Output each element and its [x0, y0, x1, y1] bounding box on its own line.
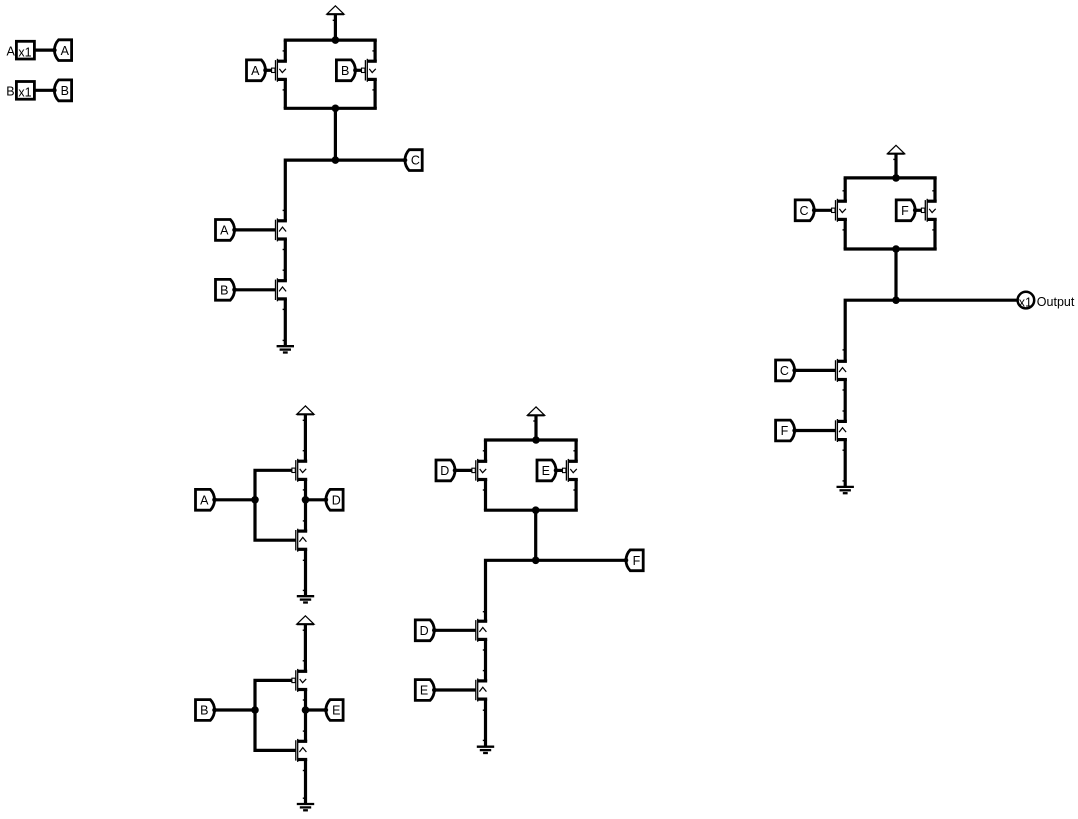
svg-text:A: A [251, 64, 260, 78]
arc end tick [932, 229, 935, 231]
wire output column (inverter 2) [304, 690, 307, 742]
input label B (N2 gate) [216, 279, 237, 300]
input label A (N1 gate) [216, 220, 237, 241]
export pin C [403, 150, 423, 171]
arc end tick [303, 770, 306, 772]
wire rail to P4 source [933, 178, 936, 201]
wire rail to P5 source [484, 440, 487, 461]
wire input B (inverter 2) [215, 708, 256, 711]
junction drain rail (NAND2) [532, 506, 540, 514]
wire VDD to pmos (inverter 1) [304, 414, 307, 461]
power VDD symbol (NAND3) [887, 145, 904, 153]
input label C (P3 gate) [795, 200, 816, 221]
nmos pull-down (inverter 1) [296, 529, 307, 552]
svg-text:E: E [332, 704, 340, 718]
wire rail to P6 source [574, 440, 577, 461]
pmos P6 (gate E) [563, 459, 578, 482]
input label A (inverter 1) [196, 489, 217, 510]
wire A to N1 gate [235, 228, 276, 231]
arc end tick [843, 480, 846, 482]
nmos pull-down (inverter 2) [296, 739, 307, 762]
wire VDD to pmos (inverter 2) [304, 624, 307, 671]
svg-text:B: B [341, 64, 349, 78]
arc end tick [932, 190, 935, 192]
arc end tick [573, 489, 576, 491]
svg-text:A: A [7, 45, 16, 59]
wire D to P5 gate [455, 469, 472, 472]
svg-text:D: D [420, 624, 429, 638]
arc end tick [283, 89, 286, 91]
wire drain rail to output node [894, 249, 897, 300]
export pin D [324, 489, 344, 510]
arc end tick [303, 730, 306, 732]
input label B (P2 gate) [336, 60, 357, 81]
export pin F [624, 550, 644, 571]
arc end tick [483, 489, 486, 491]
arc end tick [893, 158, 896, 160]
wire VDD rail (NAND2) [484, 438, 578, 441]
wire nmos to ground (inverter 2) [304, 760, 307, 804]
wire N3 to N4 [844, 380, 847, 422]
nmos N1 (gate A) [276, 218, 287, 241]
junction output node (inverter 1) [302, 496, 310, 504]
svg-text:x1: x1 [1019, 296, 1032, 310]
wire VDD to rail (NAND1) [334, 14, 337, 40]
wire C to P3 gate [814, 209, 831, 212]
svg-text:E: E [542, 464, 550, 478]
input label E (N6 gate) [415, 680, 436, 701]
ground symbol (NAND3) [837, 487, 854, 493]
junction drain rail (NAND1) [332, 105, 340, 113]
junction VDD rail (NAND2) [532, 436, 540, 444]
input label E (P6 gate) [537, 460, 558, 481]
power VDD symbol (inverter 1) [297, 406, 314, 414]
wire drain rail (NAND3) [844, 247, 937, 250]
nmos N5 (gate D) [476, 619, 487, 642]
ground symbol (NAND2) [477, 747, 494, 753]
wire P4 drain to rail2 [933, 219, 936, 249]
wire gate column (inverter 2) [255, 680, 296, 750]
wire rail to P1 source [284, 40, 287, 61]
wire gate column (inverter 1) [255, 470, 296, 540]
power VDD symbol (NAND2) [527, 407, 544, 415]
arc end tick [303, 797, 306, 799]
buffer instance x1 (input A) [16, 41, 34, 59]
svg-text:D: D [440, 464, 449, 478]
arc end tick [843, 410, 846, 412]
pmos P3 (gate C) [832, 199, 847, 222]
input label D (N5 gate) [415, 620, 436, 641]
junction output node [892, 296, 900, 304]
svg-text:A: A [220, 224, 229, 238]
arc end tick [283, 209, 286, 211]
pmos pull-up (inverter 2) [292, 669, 307, 692]
junction output node F [532, 557, 540, 565]
svg-text:B: B [220, 283, 228, 297]
wire buffer-B to export B [35, 89, 54, 92]
export pin B [52, 80, 71, 101]
arc end tick [303, 559, 306, 561]
wire P6 drain to rail2 [574, 480, 577, 511]
svg-text:F: F [781, 424, 789, 438]
wire F to N4 gate [795, 429, 836, 432]
svg-text:x1: x1 [18, 86, 31, 100]
wire E to N6 gate [434, 688, 476, 691]
export pin E [324, 700, 344, 721]
svg-text:B: B [61, 84, 69, 98]
svg-text:A: A [200, 493, 209, 507]
arc end tick [303, 660, 306, 662]
arc end tick [283, 339, 286, 341]
svg-text:D: D [332, 493, 341, 507]
input label B (inverter 2) [196, 700, 217, 721]
wire output node to NMOS stack [845, 300, 1017, 360]
input label A (P1 gate) [247, 60, 268, 81]
arc end tick [283, 269, 286, 271]
input label F (N4 gate) [776, 420, 797, 441]
svg-text:Output: Output [1037, 295, 1075, 309]
wire drain rail to output node [334, 108, 337, 160]
wire N2 to ground [284, 299, 287, 346]
arc end tick [843, 190, 846, 192]
arc end tick [283, 308, 286, 310]
arc end tick [303, 520, 306, 522]
buffer instance x1 (input B) [16, 82, 34, 100]
junction VDD rail (NAND3) [892, 174, 900, 182]
wire N5 to N6 [484, 639, 487, 681]
wire drain rail to output node [534, 510, 537, 560]
power VDD symbol (inverter 2) [297, 616, 314, 624]
nmos N2 (gate B) [276, 278, 287, 301]
wire C to N3 gate [795, 369, 836, 372]
arc end tick [843, 349, 846, 351]
svg-text:B: B [200, 704, 208, 718]
ground symbol (NAND1) [277, 346, 294, 352]
wire D to N5 gate [434, 629, 476, 632]
svg-text:F: F [901, 204, 909, 218]
pmos P2 (gate B) [362, 59, 377, 82]
wire B to N2 gate [235, 288, 276, 291]
wire drain rail (NAND2) [484, 509, 578, 512]
nmos N3 (gate C) [836, 359, 847, 382]
arc end tick [333, 19, 336, 21]
nmos N4 (gate F) [836, 419, 847, 442]
wire output to export D [306, 498, 326, 501]
wire F to P4 gate [915, 209, 921, 212]
wire VDD to rail (NAND3) [894, 154, 897, 178]
svg-text:A: A [61, 44, 70, 58]
export pin A [52, 40, 71, 61]
wire buffer-A to export A [35, 48, 54, 51]
svg-text:C: C [799, 204, 808, 218]
wire drain rail (NAND1) [284, 107, 377, 110]
wire A to P1 gate [266, 69, 272, 72]
arc end tick [303, 699, 306, 701]
wire P1 drain to rail2 [284, 79, 287, 108]
wire E to P6 gate [556, 469, 563, 472]
junction VDD rail (NAND1) [332, 36, 340, 44]
arc end tick [483, 709, 486, 711]
arc end tick [303, 419, 306, 421]
arc end tick [283, 50, 286, 52]
svg-text:C: C [780, 364, 789, 378]
arc end tick [483, 670, 486, 672]
arc end tick [483, 611, 486, 613]
svg-text:E: E [420, 684, 428, 698]
arc end tick [573, 450, 576, 452]
arc end tick [843, 449, 846, 451]
arc end tick [372, 50, 375, 52]
wire output column (inverter 1) [304, 479, 307, 531]
nmos N6 (gate E) [476, 679, 487, 702]
wire output node to NMOS stack [486, 560, 627, 621]
pmos pull-up (inverter 1) [292, 459, 307, 482]
arc end tick [372, 89, 375, 91]
wire N1 to N2 [284, 239, 287, 281]
wire P3 drain to rail2 [844, 219, 847, 249]
wire P2 drain to rail2 [374, 79, 377, 108]
arc end tick [303, 450, 306, 452]
wire input A (inverter 1) [215, 498, 256, 501]
arc end tick [843, 389, 846, 391]
pmos P4 (gate F) [921, 199, 936, 222]
wire N6 to ground [484, 699, 487, 746]
ground symbol (inverter 1) [297, 596, 314, 602]
junction input node (inverter 2) [251, 706, 259, 714]
wire VDD to rail (NAND2) [534, 415, 537, 440]
input label D (P5 gate) [436, 460, 457, 481]
arc end tick [283, 249, 286, 251]
wire B to P2 gate [355, 69, 361, 72]
junction input node (inverter 1) [251, 496, 259, 504]
arc end tick [483, 739, 486, 741]
wire VDD rail (NAND1) [284, 38, 377, 41]
svg-text:F: F [633, 554, 641, 568]
arc end tick [483, 649, 486, 651]
junction output node (inverter 2) [302, 706, 310, 714]
arc end tick [533, 420, 536, 422]
arc end tick [303, 589, 306, 591]
svg-text:B: B [6, 85, 14, 99]
pmos P5 (gate D) [472, 459, 487, 482]
wire VDD rail (NAND3) [844, 176, 937, 179]
wire P5 drain to rail2 [484, 480, 487, 511]
arc end tick [303, 489, 306, 491]
wire output node to NMOS stack [285, 160, 405, 221]
wire N4 to ground [844, 440, 847, 487]
wire rail to P3 source [844, 178, 847, 201]
wire output to export E [306, 708, 326, 711]
arc end tick [303, 629, 306, 631]
input label F (P4 gate) [896, 200, 917, 221]
output buffer x1 with Output export [1018, 292, 1075, 310]
wire rail to P2 source [374, 40, 377, 61]
svg-text:C: C [411, 154, 420, 168]
arc end tick [843, 229, 846, 231]
junction drain rail (NAND3) [892, 245, 900, 253]
power VDD symbol (NAND1) [327, 6, 344, 14]
junction output node C [332, 156, 340, 164]
arc end tick [483, 450, 486, 452]
ground symbol (inverter 2) [297, 804, 314, 810]
svg-text:x1: x1 [18, 45, 31, 59]
input label C (N3 gate) [776, 360, 797, 381]
wire nmos to ground (inverter 1) [304, 549, 307, 596]
pmos P1 (gate A) [272, 59, 287, 82]
